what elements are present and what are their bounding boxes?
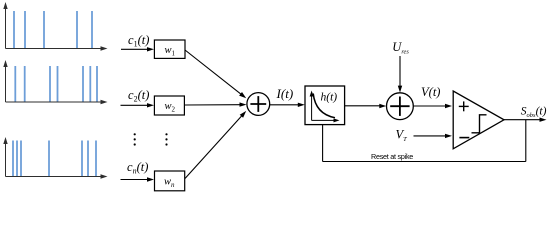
svg-text:I(t): I(t) xyxy=(276,86,294,101)
summation node 1 xyxy=(247,93,270,116)
wire sum1 to h box xyxy=(270,104,299,106)
wire w1 to sum1 xyxy=(185,50,242,95)
wire arrow c2 into w2 xyxy=(121,104,149,106)
svg-text:c1(t): c1(t) xyxy=(128,33,149,49)
spike plot 3 axes xyxy=(6,142,103,177)
svg-text:cn(t): cn(t) xyxy=(127,160,148,176)
wire w2 to sum1 xyxy=(185,104,241,106)
wire h box to sum2 xyxy=(345,105,381,107)
vertical dots left column xyxy=(134,133,136,145)
svg-text:h(t): h(t) xyxy=(321,92,338,104)
comparator U1 triangle xyxy=(453,91,504,149)
spike plot 1 spikes xyxy=(14,11,92,48)
box wn xyxy=(155,171,185,191)
wire V_T to comparator minus input xyxy=(414,135,447,137)
wire comparator output xyxy=(504,119,540,121)
summation node 2 xyxy=(387,93,414,120)
feedback wire up into h box xyxy=(322,125,324,162)
spike plot 3 y-axis arrowhead xyxy=(3,137,7,144)
box w1 xyxy=(154,40,185,58)
comparator minus sign xyxy=(459,137,469,139)
comparator plus sign xyxy=(459,101,469,111)
h box inner y-axis xyxy=(311,94,313,120)
h box decay curve xyxy=(313,94,335,118)
svg-text:V(t): V(t) xyxy=(421,85,440,99)
vertical dots box column xyxy=(165,133,167,145)
spike plot 3 x-axis arrowhead xyxy=(101,174,108,178)
feedback wire down from output xyxy=(525,120,527,162)
wire arrow c1 into w1 xyxy=(121,48,148,50)
wire sum2 to comparator plus input xyxy=(413,105,446,107)
spike plot 3 spikes xyxy=(13,141,96,177)
h box inner x-axis xyxy=(312,119,335,121)
spike plot 2 y-axis arrowhead xyxy=(3,60,7,67)
wire U_res down to sum2 xyxy=(399,56,401,89)
spike plot 2 axes xyxy=(6,65,103,102)
box h(t) xyxy=(305,86,345,125)
spike plot 2 spikes xyxy=(15,66,97,102)
box w2 xyxy=(154,96,184,115)
comparator step symbol xyxy=(472,115,487,133)
spike plot 1 axes xyxy=(6,7,103,49)
spike plot 1 x-axis arrowhead xyxy=(101,46,108,50)
feedback wire bottom horizontal xyxy=(323,161,526,163)
svg-text:c2(t): c2(t) xyxy=(128,88,149,104)
spike plot 2 x-axis arrowhead xyxy=(101,100,108,104)
svg-text:Reset at spike: Reset at spike xyxy=(371,152,413,161)
spike plot 1 y-axis arrowhead xyxy=(3,2,7,9)
wire wn to sum1 xyxy=(185,116,242,179)
wire arrow cn into wn xyxy=(121,179,149,181)
